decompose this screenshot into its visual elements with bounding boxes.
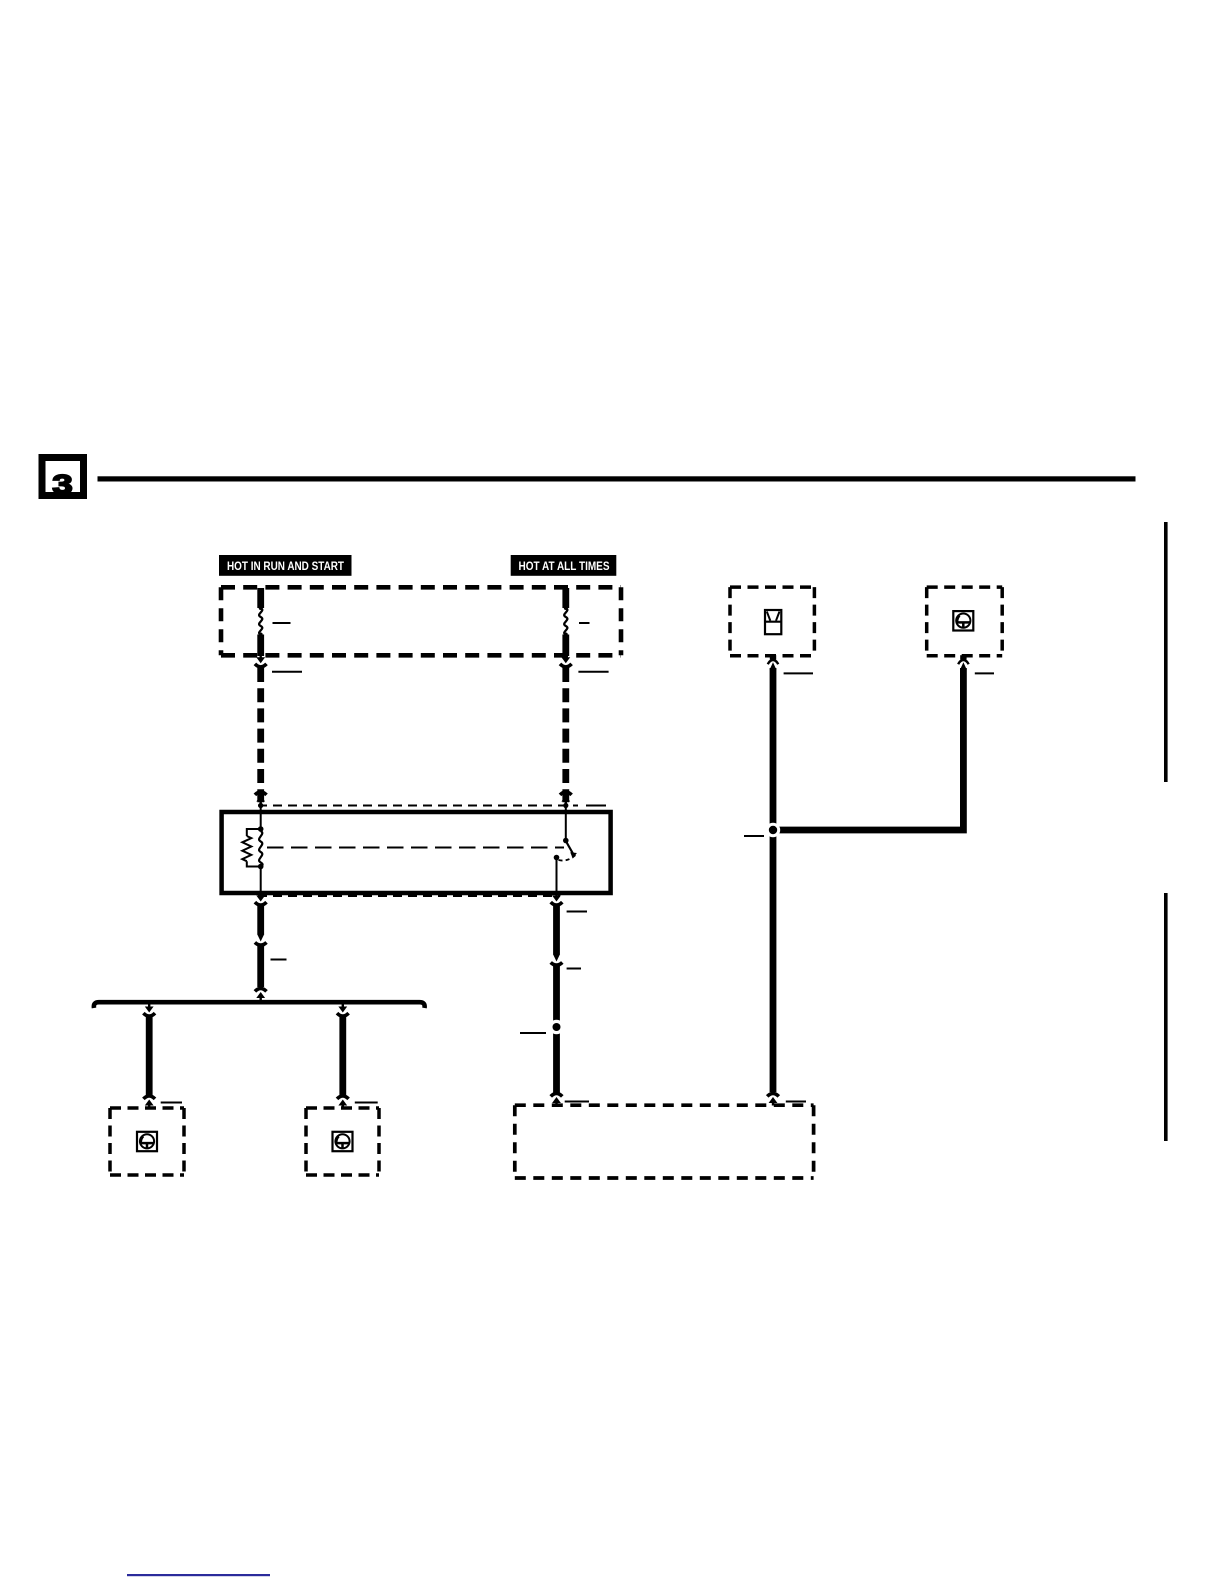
connector into relay pin 2 [560, 792, 572, 808]
wire (dashed) F1 to relay pin 1 [257, 668, 264, 802]
svg-text:HOT IN RUN AND START: HOT IN RUN AND START [227, 559, 345, 573]
connector below bus (right drop) [337, 1004, 349, 1016]
module box (wide dashed) [515, 1105, 814, 1178]
connector below box B [958, 655, 968, 670]
junction dot on box A wire [766, 823, 780, 837]
wire color label below F2 [578, 671, 608, 673]
connector below fuse F1 [255, 655, 267, 667]
fuse F2 value label [579, 622, 590, 624]
wire label at G1 [161, 1102, 182, 1104]
fuse F1 value label [273, 622, 291, 624]
relay coil K1 [259, 831, 263, 867]
wire color label left branch [271, 959, 287, 961]
steering wheel icon in G2 [333, 1132, 353, 1151]
relay K1 socket strip (top dashed line) [258, 805, 578, 807]
wire junction to module box [553, 966, 560, 1094]
connector into ground box G1 [143, 1096, 155, 1108]
splice S1 label [520, 1032, 546, 1034]
wire node B to relay pin 3 [260, 867, 262, 894]
right margin bar lower [1164, 893, 1168, 1141]
wire resistor to node B [247, 861, 261, 866]
wire color label right branch lower [567, 968, 581, 970]
fuse box (dashed enclosure) [221, 587, 621, 655]
pin label at module box right [786, 1101, 806, 1103]
component box A (cigarette lighter, dashed) [730, 587, 814, 656]
footer link line [127, 1574, 270, 1576]
connector into module box (left pin) [551, 1093, 563, 1105]
right margin bar upper [1164, 522, 1168, 782]
pin label at module box left [565, 1101, 589, 1103]
wire junction to ground bus [257, 946, 264, 988]
net label HOT AT ALL TIMES [511, 555, 617, 576]
wire box B down and across to junction [773, 668, 963, 830]
svg-text:3: 3 [52, 469, 72, 499]
connector below relay pin 3 [255, 893, 267, 905]
wire color label below box A [784, 672, 813, 674]
wire pin 1 to coil node A [260, 806, 262, 830]
wire label at G2 [355, 1102, 378, 1104]
relay top strip label [586, 805, 606, 807]
connector into ground bus [255, 988, 267, 1000]
cigarette lighter icon [765, 610, 781, 634]
wire color label right branch upper [567, 911, 587, 913]
junction label [744, 835, 764, 837]
component box B (steering wheel control, dashed) [927, 587, 1003, 656]
net label HOT IN RUN AND START [219, 555, 352, 576]
wire (dashed) F2 to relay pin 2 [562, 668, 569, 802]
fuse F1 [257, 588, 264, 656]
ground box G2 (dashed) [306, 1108, 379, 1175]
header rule [98, 476, 1136, 481]
node A [258, 826, 264, 832]
connector into ground box G2 [337, 1096, 349, 1108]
wire color label below F1 [272, 671, 302, 673]
connector below bus (left drop) [143, 1004, 155, 1016]
wire bus to ground G1 [146, 1017, 153, 1095]
inline connector junction (left branch) [255, 934, 267, 945]
wire box A down to module box [770, 668, 777, 1092]
fuse F2 [562, 588, 569, 656]
relay K1 socket strip (bottom dashed line) [258, 895, 560, 897]
connector below box A [768, 655, 778, 670]
steering wheel icon in G1 [137, 1132, 157, 1151]
inline connector junction (right branch) [551, 954, 563, 965]
splice S1 on right wire [549, 1020, 563, 1034]
connector into module box (right pin) [767, 1093, 779, 1105]
wire relay pin 3 down [257, 906, 264, 934]
connector into relay pin 1 [255, 792, 267, 808]
ground box G1 (dashed) [110, 1108, 184, 1175]
wire node A to resistor [247, 829, 261, 836]
ground bus bar [94, 1002, 425, 1008]
page number box "3" [42, 458, 84, 500]
connector below fuse F2 [560, 655, 572, 667]
wire relay pin 5 down [553, 906, 560, 954]
svg-text:HOT AT ALL TIMES: HOT AT ALL TIMES [519, 559, 610, 573]
relay switch contacts [554, 806, 577, 894]
wire color label below box B [975, 672, 994, 674]
resistor (parallel with coil) [242, 836, 251, 861]
relay K1 box [222, 812, 611, 893]
steering wheel icon in box B [953, 611, 973, 630]
node B [258, 864, 264, 870]
wire bus to ground G2 [339, 1017, 346, 1095]
relay actuation dashed link [267, 847, 564, 849]
connector below relay pin 5 [551, 893, 563, 905]
